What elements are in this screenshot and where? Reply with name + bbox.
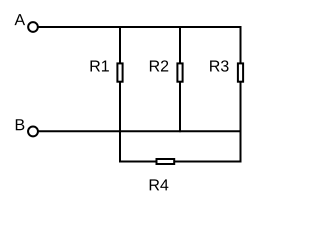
wire R2 branch vertical <box>179 26 181 132</box>
terminal A <box>28 22 38 32</box>
resistor R1 <box>91 60 123 81</box>
resistor R2 <box>150 60 183 81</box>
node B label <box>16 119 25 130</box>
wire R1 branch vertical <box>119 26 121 162</box>
wire R3 branch vertical right side <box>240 26 242 163</box>
wire top rail from terminal A to R3 branch <box>37 26 242 28</box>
wire bottom R4 loop <box>119 161 242 163</box>
node A label <box>15 14 26 25</box>
resistor R3 <box>210 60 243 81</box>
wire B rail from terminal B to right branch <box>37 130 242 132</box>
resistor R4 <box>150 159 175 190</box>
terminal B <box>28 126 38 136</box>
